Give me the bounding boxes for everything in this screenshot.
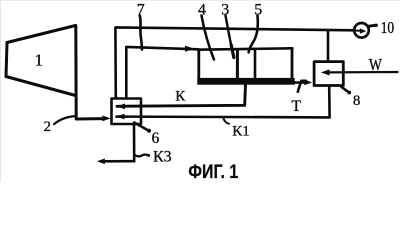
wire right edge of turbine down to box 6 feed bbox=[76, 26, 104, 120]
turbine 1 outline bbox=[6, 26, 76, 96]
arrow into box 6 left bbox=[102, 116, 110, 122]
wire rail branch down to box 8 bbox=[327, 30, 330, 61]
wire inner loop to heater bbox=[126, 47, 198, 99]
svg-text:4: 4 bbox=[198, 1, 206, 18]
svg-text:8: 8 bbox=[353, 93, 361, 109]
leader 5 bbox=[249, 16, 258, 53]
heater thick bottom bar bbox=[197, 78, 294, 85]
wire K from heater mid section to box 6 bbox=[117, 85, 246, 107]
leader 8 bbox=[342, 87, 349, 92]
svg-text:ФИГ. 1: ФИГ. 1 bbox=[188, 161, 238, 182]
wire K1 from box 8 bottom to box 6 bbox=[117, 87, 330, 118]
scan edge artifacts bbox=[0, 0, 400, 1]
divider section 3 left bbox=[236, 50, 239, 79]
svg-text:10: 10 bbox=[381, 20, 394, 38]
gauge 10 stub bbox=[368, 25, 376, 26]
box 8 bbox=[314, 62, 343, 86]
K1 tick bbox=[224, 119, 230, 124]
wire below box 6 to K3 outlet bbox=[104, 125, 134, 162]
divider section 3 right bbox=[254, 50, 257, 79]
svg-text:6: 6 bbox=[152, 130, 160, 147]
svg-text:К1: К1 bbox=[232, 124, 250, 140]
leader 4 bbox=[202, 16, 215, 60]
K3 tick bbox=[135, 154, 149, 156]
leader T bbox=[298, 81, 306, 92]
svg-text:К: К bbox=[175, 89, 186, 105]
wire outer loop (7) bbox=[115, 27, 354, 98]
heater block left edge bbox=[197, 50, 200, 79]
leader 6 bbox=[134, 123, 148, 131]
svg-text:2: 2 bbox=[43, 119, 51, 135]
svg-text:5: 5 bbox=[254, 1, 262, 18]
leader 2 bbox=[54, 116, 76, 124]
heater block right edge bbox=[291, 48, 294, 79]
box 6 bbox=[112, 99, 142, 125]
arrow on inner pipe bbox=[185, 46, 194, 52]
wire heater bar to box 8 bbox=[294, 81, 305, 84]
svg-text:7: 7 bbox=[137, 1, 145, 18]
svg-text:Т: Т bbox=[291, 98, 301, 115]
svg-text:1: 1 bbox=[34, 51, 43, 70]
svg-text:К3: К3 bbox=[153, 148, 172, 165]
wire W into box 8 bbox=[329, 71, 397, 74]
svg-text:3: 3 bbox=[221, 1, 229, 18]
gauge 10 circle bbox=[354, 23, 369, 38]
svg-text:W: W bbox=[369, 56, 383, 74]
leader 3 bbox=[226, 16, 232, 46]
heater block top edge bbox=[198, 48, 292, 49]
leader 7 bbox=[140, 16, 142, 50]
